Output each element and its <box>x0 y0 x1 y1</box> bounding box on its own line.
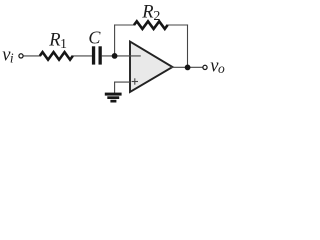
svg-text:1: 1 <box>60 37 67 52</box>
svg-text:R: R <box>141 3 153 23</box>
svg-text:C: C <box>88 28 101 48</box>
svg-text:2: 2 <box>153 9 160 24</box>
svg-text:o: o <box>218 61 225 76</box>
svg-text:R: R <box>48 31 60 51</box>
svg-text:i: i <box>10 50 14 65</box>
